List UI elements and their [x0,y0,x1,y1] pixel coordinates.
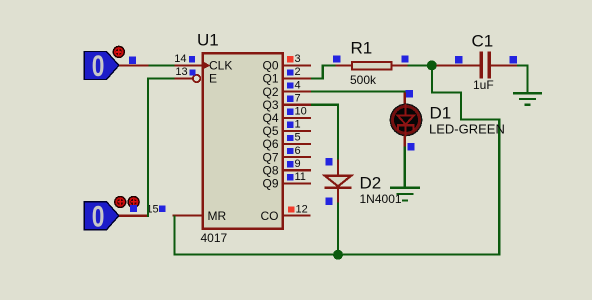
junction dot R1/C1 node [427,60,437,70]
svg-text:Q3: Q3 [262,98,278,112]
svg-text:0: 0 [92,49,105,83]
svg-text:Q2: Q2 [262,85,278,99]
IC U1 body [203,53,283,229]
svg-text:1: 1 [295,119,301,131]
svg-text:12: 12 [296,203,308,215]
pin 2 stub wire (Q1) [284,78,311,80]
clock arrow symbol on CLK pin [203,62,211,70]
svg-text:CLK: CLK [209,59,232,73]
blue square R1 left [333,55,340,62]
blue square D2 top [325,158,332,165]
wire Q1 to R1 jog (green) [311,64,336,79]
wire Q3 to D2 (green) [311,104,339,161]
pin 5 stub wire (Q6) [284,143,311,145]
svg-text:14: 14 [174,53,186,65]
wire D2 anode stub (red) [337,160,339,177]
svg-text:Q0: Q0 [262,59,278,73]
blue square LED top corner [406,90,413,97]
pin 7 stub wire (Q3) [284,104,311,106]
pin 7 state square [287,96,293,102]
svg-text:4: 4 [295,79,301,91]
svg-text:6: 6 [295,145,301,157]
svg-text:D2: D2 [360,174,382,193]
capacitor C1 [479,52,491,79]
wire input1 to CLK (red stub) [119,64,148,66]
svg-text:MR: MR [208,209,227,223]
svg-text:4017: 4017 [201,231,228,245]
pin 3 state square (high) [287,56,293,62]
LED D1 [390,104,423,137]
svg-text:5: 5 [295,132,301,144]
svg-text:10: 10 [295,106,307,118]
wire right riser (green) [498,120,500,256]
svg-text:9: 9 [295,158,301,170]
blue square R1 right [401,55,408,62]
pin 5 state square [287,135,293,141]
pin 15 state square [159,206,165,212]
junction dot bottom (D2 cathode to rail) [333,250,343,260]
wire D2 cathode stub (red) [337,189,339,203]
wire R1 to junction (green) [408,64,431,66]
svg-text:LED-GREEN: LED-GREEN [429,122,505,137]
svg-text:R1: R1 [351,39,373,58]
svg-text:Q1: Q1 [262,72,278,86]
svg-text:Q8: Q8 [262,163,278,177]
ground symbol (D1) [390,186,420,201]
pin 6 stub wire (Q7) [284,156,311,158]
wire input1 to CLK (green net) [148,64,174,66]
svg-text:Q9: Q9 [262,177,278,191]
svg-text:1N4001: 1N4001 [360,192,402,206]
svg-text:11: 11 [295,171,306,183]
pin 1 stub wire (Q5) [284,130,311,132]
svg-text:D1: D1 [430,103,452,122]
svg-text:Q7: Q7 [262,150,278,164]
svg-text:1uF: 1uF [473,78,494,92]
logic input 1 (top) [84,49,119,83]
wire LED anode stub (red) [404,93,406,106]
resistor R1 [336,62,408,70]
blue square C1 right [510,56,517,63]
wire bottom rail (green) [174,254,501,256]
pin 2 state square [287,69,293,75]
red state marker right (bottom input) [128,197,139,208]
pin 13 stub wire [174,78,193,80]
pin 4 stub wire (Q2) [284,91,311,93]
pin 11 stub wire (Q9) [284,182,311,184]
wire mid horizontal 1 (green) [431,92,462,94]
wire riser from junction (green) [431,65,433,93]
red state marker (top input) [113,46,124,57]
pin 4 state square [287,82,293,88]
svg-text:0: 0 [92,199,105,233]
diode D2 [325,176,352,189]
svg-text:13: 13 [175,66,187,78]
svg-text:Q4: Q4 [262,111,278,125]
svg-text:2: 2 [295,66,301,78]
wire E net vertical (green) [147,79,149,217]
pin 1 state square [287,122,293,128]
svg-text:C1: C1 [472,32,494,51]
svg-text:U1: U1 [197,30,219,49]
blue square C1 left [455,56,462,63]
logic input 2 (bottom) [84,199,119,233]
wire D2 to rail (green) [337,203,339,255]
E inversion bubble [193,75,200,82]
svg-text:3: 3 [295,53,301,65]
svg-text:7: 7 [295,92,301,104]
svg-text:E: E [209,72,217,86]
wire E net horizontal (green) [147,78,175,80]
pin 9 state square [287,161,293,167]
blue square near bottom input [130,205,137,212]
pin 14 stub wire [174,64,202,66]
wire Q2 to LED (green) [311,91,406,93]
pin 14 state square [189,56,195,62]
ground symbol (C1) [513,92,542,106]
svg-text:Q5: Q5 [262,124,278,138]
wire MR net vertical (green) [174,216,176,256]
red state marker left (bottom input) [115,197,126,208]
pin 11 state square [287,174,293,180]
wire input2 stub (red) [119,215,149,217]
pin 13 state square [189,69,195,75]
pin 12 state square (high) [288,206,294,212]
svg-text:CO: CO [261,209,279,223]
svg-text:Q6: Q6 [262,137,278,151]
wire junction to C1 (red) [436,64,479,66]
blue square near top input [129,56,136,63]
pin 9 stub wire (Q8) [284,169,311,171]
wire LED cathode stub (red) [404,136,406,147]
pin 6 state square [287,148,293,154]
svg-text:500k: 500k [350,73,377,87]
pin 3 stub wire (Q0) [284,64,311,66]
pin 12 stub wire (CO) [284,215,311,217]
wire C1 right (red) [491,64,517,66]
pin 10 stub wire (Q4) [284,117,311,119]
pin 15 stub wire [173,215,203,217]
wire LED to ground (green) [404,147,406,188]
blue square LED bottom [407,143,414,150]
pin 10 state square [287,109,293,115]
wire C1 to ground (green) [517,64,529,92]
wire mid riser 2 (green) [460,93,462,121]
wire mid horizontal 2 (green) [460,119,501,121]
blue square D2 bottom [325,198,332,205]
